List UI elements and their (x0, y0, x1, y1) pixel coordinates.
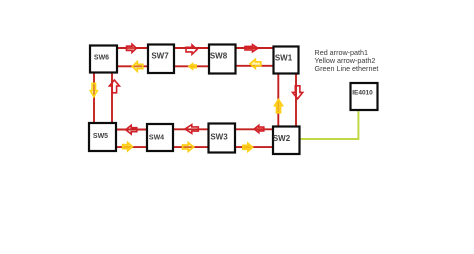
wire SW1-SW2 left link (277, 73, 279, 127)
arrow red right A3 (SW8 to SW1) (245, 45, 258, 52)
arrow red down F1 (SW1 to SW2) (293, 86, 303, 99)
arrow red left C3 (SW2 to SW3) (254, 125, 264, 132)
svg-text:SW4: SW4 (149, 135, 164, 142)
arrow yellow up F2 (SW2 to SW1) (275, 100, 283, 113)
arrow yellow down E1 (SW6 to SW5) (90, 83, 97, 97)
wire SW7-SW8 bottom link (174, 65, 209, 67)
arrow red left C2 (SW3 to SW4) (185, 125, 198, 134)
arrow yellow right D2 (SW4 to SW3) (183, 143, 194, 152)
wire SW1-SW2 right link (295, 73, 297, 127)
arrow yellow left B3 (SW1 to SW8) (250, 59, 261, 68)
wire SW4-SW3 bottom link (173, 146, 209, 148)
switch SW7 (148, 45, 174, 74)
switch SW3 (209, 124, 236, 153)
switch SW8 (209, 45, 236, 74)
wire SW4-SW3 top link (173, 128, 209, 130)
arrow yellow left B2 (SW8 to SW7) (189, 64, 196, 69)
wire SW3-SW2 bottom link (234, 146, 273, 148)
switch SW1 (274, 47, 299, 74)
wire SW6-SW7 top link (117, 47, 148, 49)
svg-text:IE4010: IE4010 (352, 90, 373, 97)
arrow red up E2 (SW5 to SW6) (109, 80, 119, 93)
wire SW8-SW1 bottom link (235, 65, 273, 67)
svg-text:SW8: SW8 (210, 52, 228, 61)
switch SW5 (89, 123, 116, 151)
arrow red right A2 (SW7 to SW8) (186, 45, 197, 54)
svg-text:SW2: SW2 (273, 134, 291, 143)
wire green ethernet SW2-IE4010 (300, 111, 358, 139)
svg-text:SW7: SW7 (151, 52, 169, 61)
wire SW6-SW7 bottom link (117, 65, 148, 67)
switch SW2 (273, 127, 300, 155)
wire SW5-SW4 top link (116, 129, 147, 131)
svg-text:SW3: SW3 (210, 133, 228, 142)
svg-text:SW6: SW6 (94, 55, 109, 62)
svg-text:SW5: SW5 (93, 133, 108, 140)
arrow yellow right D3 (SW3 to SW2) (243, 143, 253, 151)
device IE4010 (351, 83, 378, 110)
wire SW3-SW2 top link (234, 128, 273, 130)
arrow red left C1 (SW4 to SW5) (126, 125, 137, 134)
wire SW6-SW5 right link (111, 72, 113, 124)
switch SW4 (147, 124, 173, 151)
arrow yellow left B1 (SW7 to SW6) (132, 62, 143, 72)
wire SW7-SW8 top link (174, 47, 209, 49)
svg-text:Green Line ethernet: Green Line ethernet (315, 64, 379, 73)
switch SW6 (90, 46, 117, 73)
wire SW6-SW5 left link (93, 72, 95, 124)
wire SW8-SW1 top link (235, 47, 273, 49)
arrow red right A1 (SW6 to SW7) (127, 44, 137, 52)
svg-text:SW1: SW1 (275, 54, 293, 63)
wire SW5-SW4 bottom link (116, 146, 147, 148)
arrow yellow right D1 (SW5 to SW4) (123, 143, 133, 151)
